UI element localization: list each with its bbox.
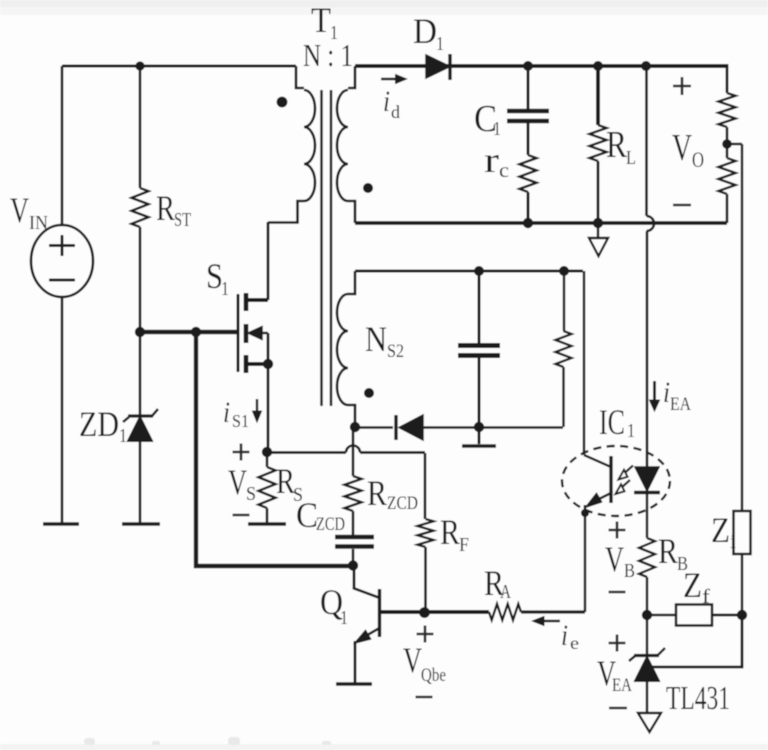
svg-text:D: D — [413, 11, 437, 51]
svg-text:V: V — [403, 640, 422, 680]
svg-text:B: B — [624, 560, 635, 582]
svg-text:i: i — [561, 619, 568, 652]
svg-text:i: i — [663, 376, 670, 409]
svg-text:A: A — [500, 581, 511, 603]
svg-text:i: i — [383, 85, 390, 118]
svg-text:1: 1 — [436, 33, 444, 55]
svg-text:V: V — [228, 462, 247, 502]
svg-text:IC: IC — [599, 402, 625, 442]
svg-text:1: 1 — [340, 607, 348, 629]
svg-text:R: R — [606, 124, 628, 166]
svg-text:R: R — [658, 531, 678, 571]
svg-text:C: C — [296, 495, 318, 535]
svg-text:IN: IN — [29, 212, 48, 234]
svg-text:Z: Z — [711, 510, 730, 550]
svg-text:i: i — [730, 531, 736, 553]
svg-text:1: 1 — [221, 278, 229, 300]
svg-text:V: V — [672, 127, 692, 169]
svg-text:1: 1 — [627, 420, 635, 442]
svg-text:N : 1: N : 1 — [303, 37, 353, 73]
svg-text:ZCD: ZCD — [387, 493, 418, 514]
svg-text:TL431: TL431 — [666, 680, 730, 717]
svg-text:R: R — [440, 512, 460, 552]
svg-text:F: F — [459, 534, 469, 556]
svg-text:r: r — [484, 140, 499, 180]
svg-text:L: L — [626, 147, 636, 169]
svg-text:f: f — [702, 586, 710, 608]
svg-text:EA: EA — [612, 675, 632, 696]
svg-text:i: i — [223, 396, 230, 429]
svg-text:EA: EA — [670, 394, 691, 415]
svg-text:ZCD: ZCD — [316, 514, 345, 535]
svg-text:T: T — [311, 0, 331, 40]
svg-text:d: d — [391, 102, 400, 122]
svg-text:R: R — [156, 188, 175, 228]
svg-text:S2: S2 — [387, 341, 404, 362]
svg-text:1: 1 — [493, 118, 501, 140]
svg-text:e: e — [570, 633, 579, 653]
svg-text:ST: ST — [174, 209, 191, 231]
svg-text:Z: Z — [683, 565, 702, 605]
svg-text:Qbe: Qbe — [421, 665, 446, 686]
svg-text:S: S — [246, 483, 256, 505]
svg-text:V: V — [10, 190, 29, 230]
svg-text:c: c — [499, 160, 509, 182]
svg-text:O: O — [692, 147, 704, 172]
svg-text:1: 1 — [119, 425, 127, 447]
svg-text:S1: S1 — [232, 411, 249, 431]
svg-text:V: V — [605, 539, 624, 579]
svg-text:N: N — [365, 319, 387, 359]
svg-text:R: R — [367, 473, 387, 513]
svg-text:ZD: ZD — [79, 404, 119, 444]
